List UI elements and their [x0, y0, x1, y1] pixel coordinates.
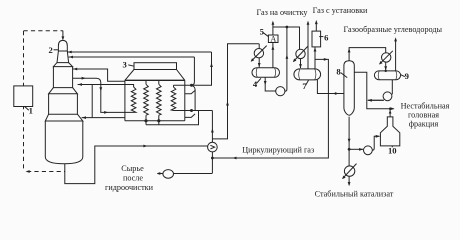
svg-text:Нестабильная: Нестабильная	[401, 101, 450, 110]
svg-text:4: 4	[253, 79, 258, 89]
svg-text:фракция: фракция	[409, 119, 439, 128]
svg-text:3: 3	[122, 60, 126, 70]
svg-text:9: 9	[405, 71, 409, 81]
svg-text:после: после	[123, 173, 143, 182]
svg-text:головная: головная	[408, 110, 439, 119]
svg-text:Циркулирующий газ: Циркулирующий газ	[242, 145, 314, 154]
svg-text:6: 6	[324, 32, 329, 42]
svg-text:1: 1	[29, 105, 33, 115]
svg-text:Стабильный катализат: Стабильный катализат	[315, 190, 394, 199]
svg-text:Газообразные углеводороды: Газообразные углеводороды	[344, 25, 443, 34]
svg-text:5: 5	[260, 27, 264, 37]
svg-text:7: 7	[302, 81, 307, 91]
svg-text:Газ на очистку: Газ на очистку	[256, 8, 308, 17]
svg-text:Сырье: Сырье	[121, 164, 144, 173]
svg-text:А: А	[270, 34, 276, 43]
svg-text:10: 10	[388, 146, 397, 156]
svg-text:8: 8	[336, 67, 341, 77]
svg-text:Газ с установки: Газ с установки	[313, 6, 368, 15]
svg-text:гидроочистки: гидроочистки	[105, 183, 154, 192]
svg-text:2: 2	[49, 45, 53, 55]
